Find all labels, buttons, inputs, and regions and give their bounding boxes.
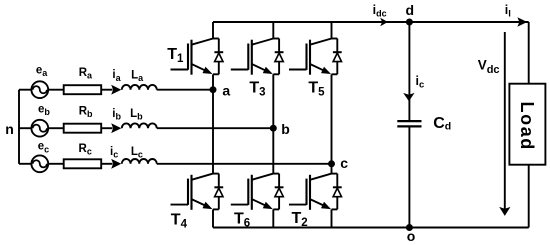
svg-text:b: b (281, 121, 290, 137)
inductor L_a (122, 85, 157, 90)
current arrow i_a (111, 85, 121, 95)
transistor T4 (171, 174, 224, 210)
svg-text:La: La (131, 70, 144, 84)
V_dc measure arrow line (504, 32, 506, 213)
wire source a to R_a (48, 89, 64, 91)
transistor T5 (289, 39, 342, 75)
AC source e_c (31, 155, 48, 172)
wire load to bottom rail (528, 165, 530, 228)
svg-text:il: il (505, 3, 511, 20)
node a (210, 86, 217, 93)
left bus wire (18, 90, 20, 164)
svg-text:Lb: Lb (130, 108, 143, 122)
svg-text:T4: T4 (171, 212, 188, 231)
node d (406, 19, 413, 26)
current arrow i_c phase (111, 159, 121, 169)
wire bus to source b (19, 127, 31, 129)
transistor T6 (231, 174, 284, 210)
svg-text:idc: idc (373, 3, 387, 18)
svg-text:T1: T1 (167, 46, 184, 65)
wire leg1 mid (212, 74, 214, 173)
wire source b to R_b (48, 127, 64, 129)
inductor L_c (122, 159, 157, 164)
load box (509, 84, 545, 165)
svg-text:T6: T6 (234, 211, 250, 230)
inductor L_b (122, 123, 157, 128)
svg-text:ia: ia (112, 69, 121, 83)
current arrow i_c dc-link (403, 93, 414, 101)
wire leg2 collector (272, 22, 274, 39)
wire R_c to arrow (101, 163, 112, 165)
transistor T3 (231, 39, 284, 75)
wire leg3 mid (331, 74, 333, 173)
svg-text:n: n (5, 121, 14, 137)
wire source c to R_c (48, 163, 64, 165)
svg-text:ec: ec (38, 141, 49, 155)
wire R_a to arrow (101, 89, 112, 91)
wire bus to source c (19, 163, 31, 165)
wire L_c to node c (157, 163, 332, 165)
V_dc arrowhead (499, 207, 510, 216)
capacitor C_d bottom plate (397, 125, 421, 127)
AC source e_a (31, 81, 48, 98)
svg-text:Rb: Rb (79, 105, 93, 119)
capacitor C_d top plate (397, 120, 421, 122)
wire leg2 emitter to rail (272, 209, 274, 227)
svg-text:Vdc: Vdc (478, 58, 500, 76)
svg-text:ib: ib (112, 108, 121, 122)
svg-text:ic: ic (110, 146, 118, 160)
node b (270, 125, 277, 132)
wire right rail corner down to load (528, 22, 530, 84)
wire R_b to arrow (101, 127, 112, 129)
svg-text:T3: T3 (249, 80, 265, 99)
wire L_b to node b (157, 127, 273, 129)
svg-text:T5: T5 (308, 80, 325, 99)
AC source e_b (31, 120, 48, 137)
svg-text:Ra: Ra (79, 67, 93, 81)
current arrow i_b (111, 123, 121, 133)
svg-text:Lc: Lc (131, 146, 143, 160)
svg-text:a: a (222, 83, 230, 99)
resistor R_a (64, 85, 101, 94)
wire capacitor to node o (408, 128, 410, 228)
wire leg2 mid (272, 74, 274, 173)
svg-text:T2: T2 (292, 210, 308, 229)
transistor T1 (171, 39, 224, 75)
bottom dc rail (213, 227, 529, 229)
wire L_a to node a (157, 89, 213, 91)
wire node d to capacitor (408, 22, 410, 120)
resistor R_b (64, 124, 101, 133)
resistor R_c (64, 159, 101, 168)
current arrow i_dc (380, 18, 388, 27)
svg-text:c: c (340, 155, 348, 171)
svg-text:Rc: Rc (79, 143, 92, 157)
svg-text:Cd: Cd (433, 115, 451, 133)
svg-text:eb: eb (38, 104, 50, 118)
current arrow i_l (517, 17, 527, 27)
svg-text:Load: Load (517, 102, 537, 151)
wire leg3 collector (331, 22, 333, 39)
svg-text:ea: ea (36, 65, 48, 79)
svg-text:d: d (406, 2, 415, 18)
wire bus to source a (19, 89, 31, 91)
svg-text:o: o (407, 228, 416, 244)
wire leg1 collector (212, 22, 214, 39)
wire leg1 emitter to rail (212, 209, 214, 227)
node c (328, 160, 335, 167)
top dc rail (213, 21, 529, 23)
wire leg3 emitter to rail (331, 209, 333, 227)
transistor T2 (289, 174, 342, 210)
node o (406, 224, 413, 231)
svg-text:ic: ic (416, 74, 425, 91)
